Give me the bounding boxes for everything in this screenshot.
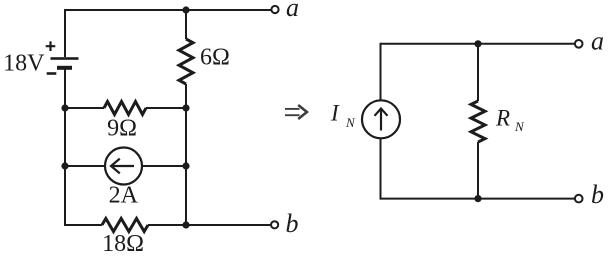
wire bottom rail to terminal b	[148, 224, 271, 226]
wire top rail (norton)	[381, 43, 576, 45]
svg-text:18Ω: 18Ω	[102, 231, 144, 257]
svg-text:9Ω: 9Ω	[107, 116, 137, 142]
wire 9ohm row right lead	[146, 107, 186, 109]
current source IN circle	[362, 100, 400, 138]
svg-text:N: N	[345, 115, 356, 130]
svg-text:I: I	[330, 101, 340, 126]
wire left rail lower (battery to bottom)	[64, 70, 66, 227]
wire right inner rail segment (2A row to bottom)	[185, 166, 187, 225]
implies double arrow	[285, 105, 307, 119]
wire 2A row left lead	[65, 165, 105, 167]
node 9ohm row right	[182, 104, 189, 111]
wire bottom rail left lead	[65, 224, 102, 226]
wire 9ohm row left lead	[65, 107, 104, 109]
svg-text:N: N	[514, 119, 525, 134]
terminal b (left circuit)	[271, 221, 278, 228]
current source 2A circle	[105, 148, 142, 185]
wire right inner rail segment top (to 6ohm)	[185, 10, 187, 39]
svg-text:18V: 18V	[3, 51, 45, 77]
junction node dots (left circuit)	[61, 6, 189, 228]
wire bottom rail (norton)	[381, 198, 576, 200]
node 9ohm row left	[61, 104, 68, 111]
node bottom rail	[182, 221, 189, 228]
terminal a (norton)	[575, 40, 583, 48]
battery plus sign	[46, 41, 56, 51]
wire left rail above source	[380, 43, 382, 101]
svg-text:6Ω: 6Ω	[200, 45, 230, 71]
wire right inner rail segment (9ohm row to 2A row)	[185, 108, 187, 166]
wire mid rail below RN	[477, 142, 479, 199]
junction node bottom of RN	[474, 195, 481, 202]
resistor RN (vertical zigzag)	[471, 101, 485, 142]
wire mid rail above RN	[477, 44, 479, 101]
resistor 6ohm (vertical zigzag)	[179, 39, 193, 84]
terminal b (norton)	[575, 195, 583, 203]
wire left rail upper (to battery)	[64, 9, 66, 57]
wire 2A row right lead	[142, 165, 186, 167]
battery minus sign	[47, 72, 57, 75]
junction node top of RN	[474, 40, 481, 47]
node 2A row right	[182, 162, 189, 169]
svg-text:b: b	[591, 180, 604, 209]
node top of 6ohm	[182, 6, 189, 13]
terminal a (left circuit)	[271, 6, 278, 13]
svg-text:a: a	[591, 27, 604, 56]
svg-text:2A: 2A	[109, 183, 139, 209]
current source 2A arrow (pointing left)	[111, 159, 134, 174]
svg-text:a: a	[286, 0, 299, 22]
battery 18V plates	[51, 57, 79, 70]
resistor 18ohm (horizontal zigzag)	[102, 219, 148, 232]
wire top rail left circuit	[65, 9, 272, 11]
resistor 9ohm (horizontal zigzag)	[104, 102, 146, 115]
wire left rail below source	[380, 138, 382, 200]
wire right inner rail segment (6ohm to 9ohm row)	[185, 84, 187, 108]
node 2A row left	[61, 162, 68, 169]
svg-text:b: b	[286, 209, 299, 238]
svg-text:R: R	[495, 106, 510, 131]
current source IN arrow (pointing up)	[375, 109, 388, 131]
